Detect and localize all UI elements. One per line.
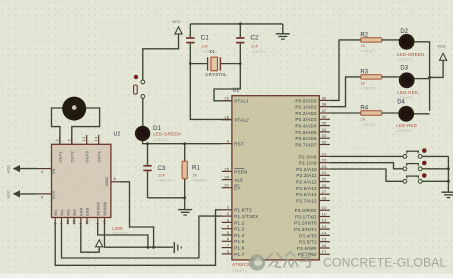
- pin 21 P2.0/A8: [319, 155, 330, 157]
- pin 13 OUT3: [86, 135, 88, 144]
- LED D2: [399, 34, 415, 50]
- wire button1 to right ground rail: [422, 155, 448, 157]
- pin 5 P1.4: [222, 234, 232, 236]
- pin 35 P0.4/AD4: [319, 125, 330, 127]
- wire motor left terminal to OUT1: [52, 108, 63, 144]
- pin 1 SENSA: [97, 218, 99, 225]
- pin 7 IN2: [61, 218, 63, 225]
- pin 32 P0.7/AD7: [319, 144, 330, 146]
- wire right ground rail: [447, 156, 449, 192]
- ground (below R1): [184, 198, 186, 210]
- pin 27 P2.6/A14: [319, 193, 330, 195]
- DC motor: [62, 97, 86, 121]
- pin 38 P0.1/AD1: [319, 106, 330, 108]
- junction SENSA branch: [146, 246, 149, 249]
- pin 39 P0.0/AD0: [319, 99, 330, 101]
- wire D2 out to right rail: [414, 42, 430, 111]
- op: MCU U1 AT89C52 body: [232, 96, 319, 260]
- LED D3: [399, 72, 415, 88]
- ground (top right of caps): [282, 24, 284, 34]
- ground (right-pointing, under U2): [173, 242, 175, 253]
- pin 29 PSEN: [222, 170, 232, 172]
- wire top rail C1-C2-ground: [190, 23, 282, 25]
- pin 9 RST: [222, 143, 232, 145]
- junction crystal right lead: [239, 62, 242, 65]
- capacitor C3: [147, 144, 149, 165]
- pin 24 P2.3/A11: [319, 174, 330, 176]
- pin 4 P1.3: [222, 228, 232, 230]
- pin 17 P3.7/RD: [319, 253, 330, 255]
- pin 36 P0.3/AD3: [319, 118, 330, 120]
- pin 9 VCC: [37, 193, 52, 195]
- wire D1 to RST: [143, 141, 222, 144]
- wire IN2 to P1.1: [62, 216, 222, 258]
- pin 10 IN3: [67, 218, 69, 225]
- pin 6 P1.5: [222, 240, 232, 242]
- pin 3 P1.2: [222, 221, 232, 223]
- wire P0.2 to R4: [330, 112, 361, 114]
- pin 12 IN4: [73, 218, 75, 225]
- wire SENSB to ground: [105, 224, 174, 247]
- resistor R3: [361, 75, 382, 79]
- wire D4 out: [414, 113, 430, 115]
- wire button2 out: [422, 168, 448, 170]
- wire crystal right / C2 to XTAL1: [214, 64, 240, 101]
- pin 19 XTAL1: [222, 100, 232, 102]
- wire button to D1: [142, 98, 144, 126]
- pin 8 P1.7: [222, 253, 232, 255]
- pin 34 P0.5/AD5: [319, 131, 330, 133]
- power VCC arrow (left): [20, 193, 37, 195]
- wire R3 to D3: [382, 76, 401, 78]
- pin 15 SENSB: [104, 218, 106, 225]
- wire R4 to D4: [382, 112, 400, 114]
- capacitor C2: [239, 24, 241, 37]
- pin 2 P1.1/T2EX: [222, 215, 232, 217]
- wire C3 bottom to R1 bottom: [148, 197, 185, 199]
- pin 1 P1.0/T2: [222, 209, 232, 211]
- wire P0.1 to R3: [330, 77, 361, 107]
- pin 7 P1.6: [222, 247, 232, 249]
- wire SENSA to ground rail: [98, 224, 148, 247]
- crystal X1: [190, 63, 207, 65]
- junction crystal left lead: [189, 62, 192, 65]
- pin 33 P0.6/AD6: [319, 137, 330, 139]
- pin 16 P3.6/WR: [319, 247, 330, 249]
- wire P2.2 to button 3: [330, 169, 403, 181]
- op: driver U2 L298 body: [52, 144, 111, 217]
- pin 31 EA: [222, 187, 232, 189]
- svg-text:CONCRETE-GLOBAL: CONCRETE-GLOBAL: [323, 256, 447, 270]
- pin 11 ENB: [86, 218, 88, 225]
- pin 4 VS: [37, 168, 52, 170]
- power VCC arrow (left): [20, 168, 37, 170]
- wire button3 out: [422, 180, 448, 182]
- pin 18 XTAL2: [222, 119, 232, 121]
- U2 right pin GND: [111, 181, 121, 183]
- pin 23 P2.2/A10: [319, 168, 330, 170]
- wire motor right terminal to OUT2: [72, 108, 100, 144]
- junction R1 top: [183, 142, 186, 145]
- pin 2 OUT1: [59, 135, 61, 144]
- watermark text 公众号: [267, 252, 313, 268]
- push button SW3: [406, 175, 419, 177]
- pin 26 P2.5/A13: [319, 187, 330, 189]
- pin 11 P3.1/TXD: [319, 216, 330, 218]
- pin 15 P3.5/T1: [319, 241, 330, 243]
- pin 10 P3.0/RXD: [319, 209, 330, 211]
- pin 14 OUT4: [98, 135, 100, 144]
- push button (reset): [134, 75, 138, 79]
- pin 22 P2.1/A9: [319, 162, 330, 164]
- LED D4: [398, 106, 414, 122]
- pin 3 OUT2: [71, 135, 73, 144]
- pin 25 P2.4/A12: [319, 181, 330, 183]
- wire U2 GND pin to ground: [121, 182, 154, 247]
- resistor R2: [361, 38, 382, 42]
- ground (bottom right): [441, 191, 453, 193]
- capacitor C1: [189, 24, 191, 37]
- wire IN1 to P1.0: [55, 210, 222, 265]
- wire VCC stem down-left to button: [143, 34, 179, 80]
- push button SW1: [406, 150, 419, 152]
- junction GND branch: [152, 246, 155, 249]
- watermark logo: [249, 254, 265, 270]
- pin 12 P3.2/INT0: [319, 222, 330, 224]
- wire P0.0 to R2: [330, 40, 361, 101]
- pin 28 P2.7/A15: [319, 200, 330, 202]
- pin 14 P3.4/T0: [319, 234, 330, 236]
- pin 6 ENA: [80, 218, 82, 225]
- resistor R4: [361, 111, 382, 115]
- wire P2.1 to button 2: [330, 163, 403, 169]
- pin 13 P3.3/INT1: [319, 228, 330, 230]
- junction C2 top: [239, 22, 242, 25]
- junction C3 top: [146, 142, 149, 145]
- pin 30 ALE: [222, 179, 232, 181]
- push button SW2: [406, 163, 419, 165]
- wire ENA to VCC: [81, 224, 99, 252]
- junction R1 bottom: [183, 196, 186, 199]
- LED D1: [135, 126, 150, 141]
- wire D3 out: [414, 78, 429, 80]
- power VCC (under U2): [96, 240, 103, 247]
- pin 37 P0.2/AD2: [319, 112, 330, 114]
- wire R2 to D2: [382, 39, 401, 41]
- resistor R1 (vertical): [184, 144, 186, 162]
- wire P2.0 to button 1: [330, 155, 403, 157]
- pin 5 IN1: [54, 218, 56, 225]
- wire crystal left / C1 to XTAL2: [190, 64, 232, 120]
